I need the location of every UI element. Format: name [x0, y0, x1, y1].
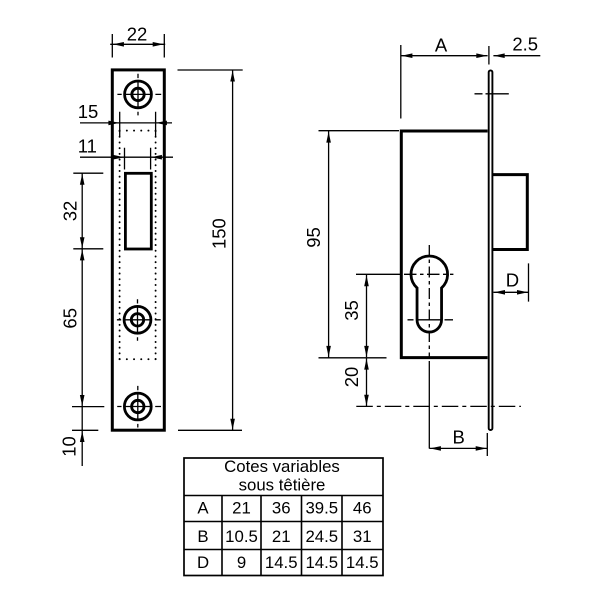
svg-text:35: 35	[341, 300, 362, 321]
svg-text:B: B	[453, 427, 465, 448]
svg-text:sous têtière: sous têtière	[239, 476, 326, 495]
svg-text:A: A	[435, 34, 448, 55]
svg-text:20: 20	[341, 367, 362, 388]
svg-text:D: D	[197, 553, 209, 572]
svg-text:32: 32	[60, 201, 81, 222]
svg-text:24.5: 24.5	[305, 527, 338, 546]
svg-text:15: 15	[78, 101, 99, 122]
svg-text:95: 95	[303, 227, 324, 248]
svg-text:B: B	[197, 527, 208, 546]
svg-text:46: 46	[353, 498, 372, 517]
svg-text:10.5: 10.5	[225, 527, 258, 546]
svg-text:31: 31	[353, 527, 372, 546]
svg-text:22: 22	[127, 23, 148, 44]
svg-text:10: 10	[58, 436, 79, 457]
svg-text:14.5: 14.5	[265, 553, 298, 572]
svg-text:36: 36	[272, 498, 291, 517]
svg-text:A: A	[197, 498, 209, 517]
svg-text:14.5: 14.5	[346, 553, 379, 572]
svg-text:2.5: 2.5	[512, 33, 538, 54]
svg-text:Cotes variables: Cotes variables	[224, 457, 340, 476]
svg-text:21: 21	[272, 527, 291, 546]
svg-text:D: D	[506, 270, 519, 291]
svg-text:65: 65	[60, 308, 81, 329]
svg-text:39.5: 39.5	[305, 498, 338, 517]
svg-text:150: 150	[208, 218, 229, 249]
svg-text:11: 11	[78, 135, 97, 156]
svg-text:14.5: 14.5	[305, 553, 338, 572]
svg-text:21: 21	[232, 498, 251, 517]
svg-text:9: 9	[237, 553, 246, 572]
